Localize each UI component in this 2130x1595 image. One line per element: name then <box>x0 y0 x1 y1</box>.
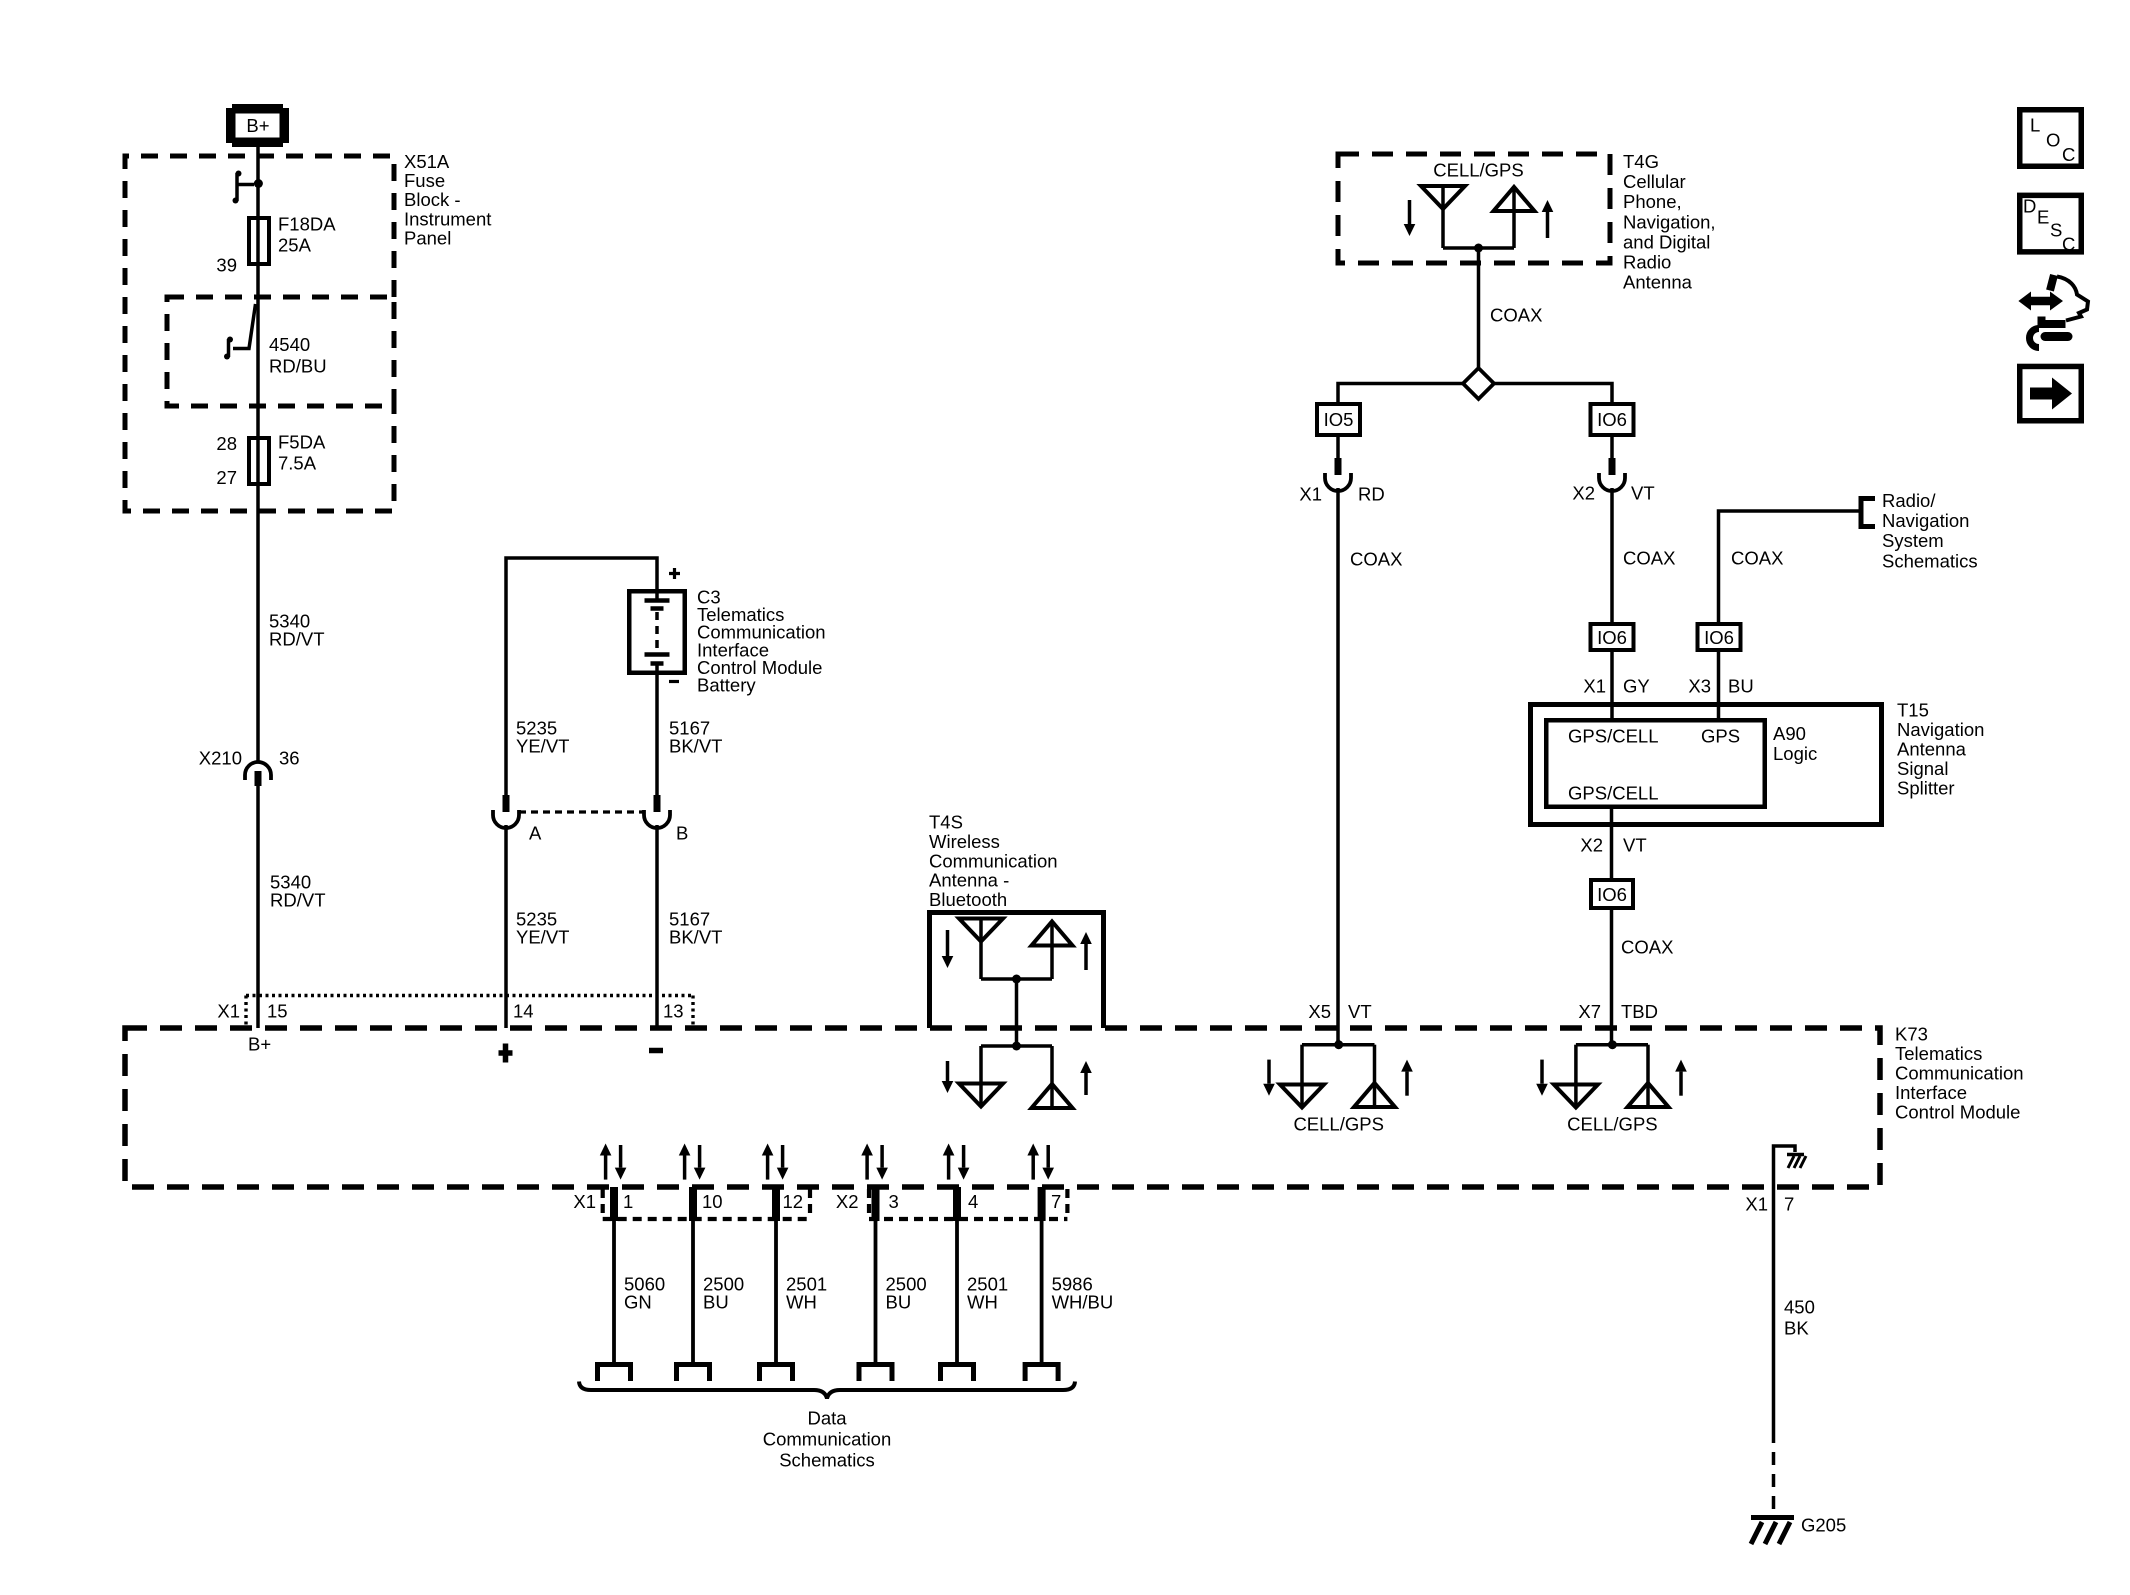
pin 13 <box>663 1001 684 1022</box>
label 5167 BK/VT upper <box>669 718 722 757</box>
label - (pin 13) <box>649 1048 663 1054</box>
battery C3 <box>629 589 685 675</box>
label GPS/CELL bottom <box>1568 783 1659 804</box>
power feed B+ box <box>226 104 289 147</box>
pin 7 (ground) <box>1784 1194 1794 1215</box>
data wires <box>614 1221 1042 1362</box>
svg-text:Radio/: Radio/ <box>1882 490 1936 511</box>
svg-text:COAX: COAX <box>1731 548 1783 569</box>
icon DESC <box>2020 195 2082 254</box>
svg-text:7.5A: 7.5A <box>278 453 317 474</box>
terminal IO6 (nav out) <box>1591 880 1633 908</box>
connector B <box>644 795 670 828</box>
connector X210 pin 36 <box>245 762 271 786</box>
svg-text:Navigation,: Navigation, <box>1623 211 1716 232</box>
svg-text:X1: X1 <box>1583 676 1606 697</box>
svg-text:Block -: Block - <box>404 189 461 210</box>
label X1 (RD) <box>1299 484 1322 505</box>
pin 12 <box>783 1191 804 1212</box>
svg-text:A90: A90 <box>1773 723 1806 744</box>
svg-text:Battery: Battery <box>697 675 756 696</box>
T4G feed junction <box>1443 244 1514 253</box>
label 5340 RD/VT lower <box>270 872 326 911</box>
connector strip X1 (top) <box>246 996 693 1029</box>
connector X1 RD <box>1325 458 1351 491</box>
svg-text:F18DA: F18DA <box>278 214 336 235</box>
X5 group up arrow <box>1401 1060 1413 1096</box>
label BU <box>1728 676 1754 697</box>
data wire labels <box>624 1274 1113 1313</box>
K73 bluetooth down arrow <box>942 1061 954 1093</box>
wire IO6 to T15 X1 <box>1610 652 1614 718</box>
svg-text:450: 450 <box>1784 1297 1815 1318</box>
svg-text:RD/VT: RD/VT <box>269 629 325 650</box>
ground G205 <box>1751 1518 1794 1545</box>
label X210 <box>199 748 242 769</box>
label GY <box>1623 676 1650 697</box>
fuse F18DA 25A <box>249 218 269 264</box>
pin 1 <box>623 1191 633 1212</box>
module K73 dashed box <box>125 1028 1880 1187</box>
antenna T4G dashed box <box>1338 154 1610 263</box>
K73 internal ground <box>1774 1146 1807 1187</box>
svg-text:Schematics: Schematics <box>1882 550 1978 571</box>
label COAX (nav) <box>1621 937 1673 958</box>
label X2 (bottom strip) <box>836 1191 859 1212</box>
wire coax nav <box>1610 910 1614 1045</box>
label X5 <box>1308 1001 1331 1022</box>
connector strip X2 (bottom) <box>869 1189 1067 1219</box>
svg-text:Splitter: Splitter <box>1897 778 1955 799</box>
label COAX (gps) <box>1623 548 1675 569</box>
X5 group down arrow <box>1263 1060 1275 1096</box>
wire IO5 to X1 connector <box>1336 437 1340 458</box>
svg-text:7: 7 <box>1784 1194 1794 1215</box>
svg-text:14: 14 <box>513 1001 534 1022</box>
svg-text:Navigation: Navigation <box>1897 719 1984 740</box>
svg-text:Radio: Radio <box>1623 252 1671 273</box>
svg-text:4540: 4540 <box>269 334 310 355</box>
svg-text:4: 4 <box>968 1191 978 1212</box>
label X2 (T15 out) <box>1580 835 1603 856</box>
svg-text:IO5: IO5 <box>1324 409 1354 430</box>
svg-text:X1: X1 <box>573 1191 596 1212</box>
svg-text:E: E <box>2037 207 2049 228</box>
svg-text:Data: Data <box>807 1408 847 1429</box>
label 450 BK <box>1784 1297 1815 1339</box>
svg-text:IO6: IO6 <box>1597 409 1627 430</box>
label K73 Telematics Communication Interface Control Module <box>1895 1024 2024 1123</box>
svg-text:X1: X1 <box>217 1001 240 1022</box>
svg-text:VT: VT <box>1631 483 1655 504</box>
svg-text:C: C <box>2062 234 2075 255</box>
pin 39 <box>216 255 237 276</box>
label 5167 BK/VT lower <box>669 909 722 948</box>
svg-text:T4G: T4G <box>1623 151 1659 172</box>
pin 7 (data) <box>1051 1191 1061 1212</box>
T4S right antenna <box>1032 921 1073 979</box>
splitter diamond <box>1463 368 1494 399</box>
svg-text:Control Module: Control Module <box>1895 1102 2020 1123</box>
wire IO6 to T15 X3 <box>1717 652 1721 718</box>
label VT (X5) <box>1348 1001 1372 1022</box>
svg-text:Navigation: Navigation <box>1882 510 1969 531</box>
label VT (X2) <box>1631 483 1655 504</box>
T4S left antenna <box>959 919 1003 980</box>
svg-text:X7: X7 <box>1578 1001 1601 1022</box>
label X1 (strip) <box>217 1001 240 1022</box>
wire radio branch <box>1719 511 1862 622</box>
brace <box>579 1382 1075 1399</box>
svg-text:X2: X2 <box>1580 835 1603 856</box>
label T15 Navigation Antenna Signal Splitter <box>1897 700 1984 799</box>
svg-text:X2: X2 <box>836 1191 859 1212</box>
pin 10 <box>702 1191 723 1212</box>
svg-text:L: L <box>2030 115 2040 136</box>
label F18DA 25A <box>278 214 336 256</box>
svg-text:GPS/CELL: GPS/CELL <box>1568 726 1659 747</box>
terminal IO6 (gps in) <box>1591 624 1634 650</box>
label CELL/GPS (X5) <box>1293 1114 1384 1135</box>
connector A <box>493 795 519 828</box>
T4G down arrow <box>1404 200 1416 236</box>
svg-text:13: 13 <box>663 1001 684 1022</box>
pin 3 <box>889 1191 899 1212</box>
wire T15 X2 out <box>1610 809 1614 878</box>
terminal IO5 <box>1317 404 1360 435</box>
label RD <box>1358 484 1385 505</box>
battery + terminal <box>669 568 680 579</box>
svg-text:WH: WH <box>967 1292 998 1313</box>
svg-text:K73: K73 <box>1895 1024 1928 1045</box>
svg-text:B+: B+ <box>248 1034 271 1055</box>
connector X2 VT <box>1599 458 1625 491</box>
svg-text:15: 15 <box>267 1001 288 1022</box>
label T4S Wireless Communication Antenna - Bluetooth <box>929 812 1058 911</box>
fuse F5DA 7.5A <box>249 438 269 484</box>
logic module A90 box <box>1546 720 1765 807</box>
svg-text:TBD: TBD <box>1621 1001 1658 1022</box>
svg-text:Instrument: Instrument <box>404 208 491 229</box>
label C3 Telematics Communication Interface Control Module Battery <box>697 587 826 696</box>
svg-text:Panel: Panel <box>404 227 451 248</box>
label F5DA 7.5A <box>278 432 326 474</box>
svg-text:Communication: Communication <box>1895 1063 2024 1084</box>
wire A to pin 14 <box>504 825 508 1028</box>
label 5340 RD/VT upper <box>269 611 325 650</box>
svg-text:Signal: Signal <box>1897 758 1948 779</box>
svg-text:12: 12 <box>783 1191 804 1212</box>
svg-text:7: 7 <box>1051 1191 1061 1212</box>
pin 14 <box>513 1001 534 1022</box>
svg-text:BK: BK <box>1784 1318 1809 1339</box>
wire B+ to fuse block <box>256 147 260 763</box>
K73 data arrows <box>600 1144 1054 1180</box>
svg-text:GY: GY <box>1623 676 1650 697</box>
svg-text:X1: X1 <box>1299 484 1322 505</box>
label 5235 YE/VT lower <box>516 909 569 948</box>
svg-text:25A: 25A <box>278 235 312 256</box>
svg-text:X5: X5 <box>1308 1001 1331 1022</box>
svg-text:G205: G205 <box>1801 1515 1846 1536</box>
svg-text:Communication: Communication <box>763 1429 892 1450</box>
label G205 <box>1801 1515 1846 1536</box>
svg-text:VT: VT <box>1623 835 1647 856</box>
label COAX (radio) <box>1731 548 1783 569</box>
label 4540 RD/BU <box>269 334 327 377</box>
svg-text:RD: RD <box>1358 484 1385 505</box>
fuse block X51A dashed outline <box>125 156 394 511</box>
svg-text:T15: T15 <box>1897 700 1929 721</box>
icon arrows and wrench <box>2018 275 2088 348</box>
pin 28 <box>216 433 237 454</box>
terminal IO6 (cell) <box>1591 404 1634 435</box>
label A <box>529 823 542 844</box>
X7 group down arrow <box>1536 1060 1548 1096</box>
svg-text:BK/VT: BK/VT <box>669 927 722 948</box>
svg-text:CELL/GPS: CELL/GPS <box>1293 1114 1384 1135</box>
svg-text:Wireless: Wireless <box>929 831 1000 852</box>
ground wire 450 BK <box>1772 1187 1776 1512</box>
svg-text:CELL/GPS: CELL/GPS <box>1433 160 1524 181</box>
label GPS/CELL top <box>1568 726 1659 747</box>
data wire terminations <box>598 1365 1059 1382</box>
T4G right antenna <box>1494 187 1535 248</box>
svg-text:BK/VT: BK/VT <box>669 736 722 757</box>
svg-text:Communication: Communication <box>929 850 1058 871</box>
fuse block inner dashed box (4540 section) <box>167 297 394 406</box>
T4S feed junction <box>981 975 1052 1047</box>
svg-text:3: 3 <box>889 1191 899 1212</box>
pin 15 <box>267 1001 288 1022</box>
svg-text:X51A: X51A <box>404 151 450 172</box>
K73 data pin stubs <box>610 1187 1046 1221</box>
svg-text:A: A <box>529 823 542 844</box>
svg-text:Antenna: Antenna <box>1897 739 1967 760</box>
svg-text:D: D <box>2023 196 2036 217</box>
T4S up arrow <box>1080 932 1092 970</box>
svg-text:Fuse: Fuse <box>404 170 445 191</box>
pin 27 <box>216 467 237 488</box>
wire coax cell <box>1336 488 1340 1045</box>
K73 bluetooth antenna left <box>959 1042 1052 1108</box>
label 5235 YE/VT upper <box>516 718 569 757</box>
switch contact 4540 <box>224 304 256 360</box>
svg-text:RD/BU: RD/BU <box>269 356 327 377</box>
svg-text:1: 1 <box>623 1191 633 1212</box>
svg-text:BU: BU <box>1728 676 1754 697</box>
svg-text:27: 27 <box>216 467 237 488</box>
svg-text:VT: VT <box>1348 1001 1372 1022</box>
splitter T15 box <box>1531 705 1882 825</box>
clip contact at fuse block feed <box>233 171 263 204</box>
label COAX (cell) <box>1350 549 1402 570</box>
svg-text:B: B <box>676 823 688 844</box>
svg-text:Schematics: Schematics <box>779 1450 875 1471</box>
svg-text:28: 28 <box>216 433 237 454</box>
wire battery to B <box>655 675 659 795</box>
wire coax gps <box>1610 488 1614 622</box>
svg-text:X1: X1 <box>1745 1194 1768 1215</box>
svg-text:Cellular: Cellular <box>1623 171 1686 192</box>
svg-text:X3: X3 <box>1688 676 1711 697</box>
label CELL/GPS (T4G) <box>1433 160 1524 181</box>
svg-text:10: 10 <box>702 1191 723 1212</box>
svg-text:IO6: IO6 <box>1704 627 1734 648</box>
connector link A-B <box>519 810 644 813</box>
off-page connector Radio/Navigation <box>1861 499 1875 527</box>
svg-text:GPS/CELL: GPS/CELL <box>1568 783 1659 804</box>
svg-text:F5DA: F5DA <box>278 432 326 453</box>
svg-text:GPS: GPS <box>1701 726 1740 747</box>
svg-text:X210: X210 <box>199 748 242 769</box>
svg-text:YE/VT: YE/VT <box>516 927 569 948</box>
label + (pin 14) <box>499 1044 513 1063</box>
svg-text:Antenna -: Antenna - <box>929 870 1009 891</box>
svg-text:WH: WH <box>786 1292 817 1313</box>
label B+ (pin 15) <box>248 1034 271 1055</box>
terminal IO6 (radio in) <box>1698 624 1741 650</box>
label VT (T15 out) <box>1623 835 1647 856</box>
K73 cell antenna group X7 <box>1554 1040 1669 1107</box>
pin 4 <box>968 1191 978 1212</box>
label X2 (VT) <box>1572 483 1595 504</box>
label X3 <box>1688 676 1711 697</box>
label A90 Logic <box>1773 723 1817 764</box>
svg-text:Antenna: Antenna <box>1623 272 1693 293</box>
svg-text:36: 36 <box>279 748 300 769</box>
svg-text:IO6: IO6 <box>1597 627 1627 648</box>
label B <box>676 823 688 844</box>
label Data Communication Schematics <box>763 1408 892 1471</box>
svg-text:Interface: Interface <box>1895 1082 1967 1103</box>
svg-text:COAX: COAX <box>1490 305 1542 326</box>
label TBD <box>1621 1001 1658 1022</box>
wire B to pin 13 <box>655 825 659 1028</box>
svg-text:O: O <box>2046 129 2060 150</box>
T4G up arrow <box>1542 200 1554 238</box>
antenna module T4S box <box>930 913 1104 1029</box>
svg-text:YE/VT: YE/VT <box>516 736 569 757</box>
svg-text:CELL/GPS: CELL/GPS <box>1567 1114 1658 1135</box>
svg-text:and Digital: and Digital <box>1623 231 1710 252</box>
svg-text:T4S: T4S <box>929 812 963 833</box>
svg-text:Telematics: Telematics <box>1895 1043 1982 1064</box>
svg-text:S: S <box>2050 220 2062 241</box>
svg-text:39: 39 <box>216 255 237 276</box>
K73 bluetooth up arrow <box>1080 1061 1092 1095</box>
svg-text:BU: BU <box>703 1292 729 1313</box>
svg-text:B+: B+ <box>246 115 269 136</box>
svg-text:Bluetooth: Bluetooth <box>929 889 1007 910</box>
T4G left antenna <box>1421 186 1465 248</box>
svg-text:IO6: IO6 <box>1597 884 1627 905</box>
svg-text:COAX: COAX <box>1621 937 1673 958</box>
icon next page arrow <box>2020 366 2082 420</box>
label X7 <box>1578 1001 1601 1022</box>
K73 cell antenna group X5 <box>1280 1040 1395 1107</box>
svg-text:WH/BU: WH/BU <box>1052 1292 1114 1313</box>
svg-text:C: C <box>2062 144 2075 165</box>
label T4G Cellular Phone Navigation and Digital Radio Antenna <box>1623 151 1716 293</box>
label 36 <box>279 748 300 769</box>
icon LOC <box>2020 110 2082 167</box>
X7 group up arrow <box>1675 1060 1687 1096</box>
label X1 (pin 7) <box>1745 1194 1768 1215</box>
connector strip X1 (bottom) <box>603 1189 810 1219</box>
wire battery feed <box>506 558 657 795</box>
label X51A Fuse Block - Instrument Panel <box>404 151 491 248</box>
label COAX (T4G) <box>1490 305 1542 326</box>
wire diamond to IO5 <box>1338 384 1463 403</box>
svg-text:GN: GN <box>624 1292 652 1313</box>
battery - terminal <box>669 680 679 683</box>
coax wire T4G to splitter <box>1477 248 1481 367</box>
label Radio/Navigation System Schematics <box>1882 490 1978 571</box>
svg-text:System: System <box>1882 530 1944 551</box>
svg-text:RD/VT: RD/VT <box>270 890 326 911</box>
label X1 (bottom strip) <box>573 1191 596 1212</box>
K73 bluetooth antenna right <box>1032 1046 1073 1108</box>
wire diamond to IO6 <box>1494 384 1612 403</box>
svg-text:BU: BU <box>886 1292 912 1313</box>
label X1 (GY) <box>1583 676 1606 697</box>
svg-text:X2: X2 <box>1572 483 1595 504</box>
wire IO6 to X2 connector <box>1610 437 1614 458</box>
svg-text:COAX: COAX <box>1623 548 1675 569</box>
svg-text:Phone,: Phone, <box>1623 191 1682 212</box>
wire X210 to pin 15 <box>256 786 260 1028</box>
label CELL/GPS (X7) <box>1567 1114 1658 1135</box>
svg-text:Logic: Logic <box>1773 743 1817 764</box>
T4S down arrow <box>942 930 954 968</box>
svg-text:COAX: COAX <box>1350 549 1402 570</box>
label GPS <box>1701 726 1740 747</box>
